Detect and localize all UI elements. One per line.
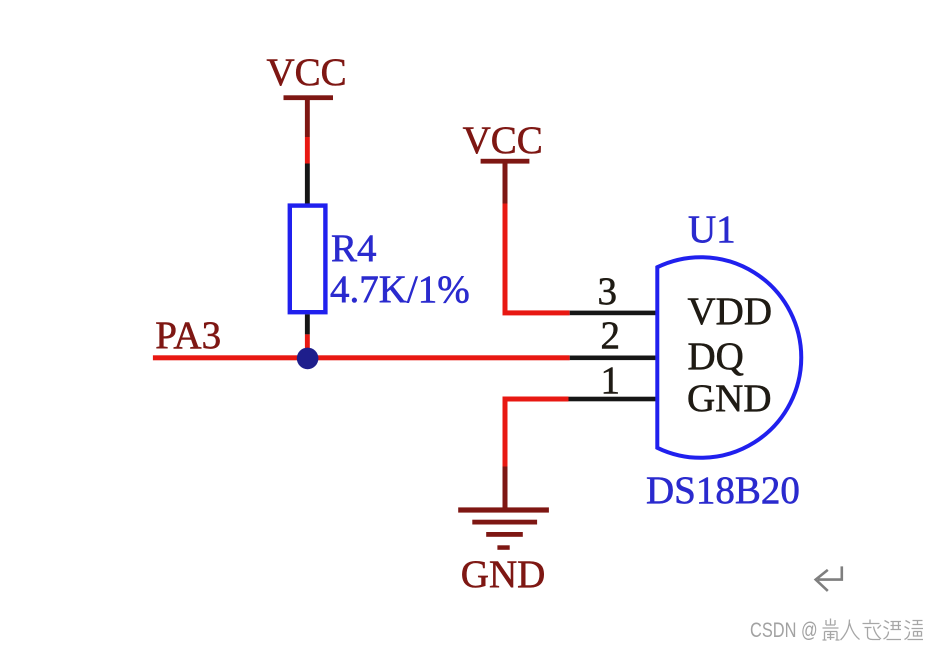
- wire pin2 black horizontal: [570, 356, 658, 361]
- watermark chinese glyphs: [821, 618, 926, 644]
- pin number 2: [601, 316, 621, 355]
- pin number 3: [598, 272, 618, 311]
- power symbol VCC (right) bar: [481, 159, 530, 164]
- designator U1: [688, 210, 736, 249]
- wire GND stem maroon: [503, 467, 508, 509]
- return arrow icon: [816, 566, 842, 591]
- wire pin1 red horizontal: [503, 397, 569, 402]
- ground bar 1: [458, 507, 549, 512]
- net label VCC (left): [267, 53, 347, 92]
- wire pin1 black horizontal: [569, 397, 658, 402]
- power symbol VCC (left) stem: [305, 97, 310, 137]
- pin number 1: [601, 361, 621, 400]
- power symbol VCC (left) bar: [284, 95, 334, 100]
- power symbol VCC (right) stem: [503, 161, 508, 204]
- ground bar 2: [472, 520, 537, 525]
- net label VCC (right): [463, 121, 543, 160]
- wire PA3 horizontal net: [153, 355, 570, 360]
- wire R4 to node red segment: [305, 334, 310, 349]
- pin name GND: [687, 379, 772, 418]
- wire pin3 red horizontal: [503, 310, 570, 315]
- wire pin3 black horizontal: [570, 311, 658, 316]
- pin name VDD: [688, 292, 773, 331]
- junction dot node PA3: [297, 348, 319, 370]
- wire pin1 to GND vertical red: [503, 397, 508, 467]
- watermark CSDN: [750, 620, 818, 641]
- wire R4 to node black segment: [305, 314, 310, 334]
- wire VCC to R4 red segment: [305, 137, 310, 164]
- designator R4: [331, 229, 377, 268]
- value DS18B20: [646, 471, 800, 510]
- net label PA3: [155, 316, 221, 355]
- op-amp U1 DS18B20 body: [657, 257, 801, 458]
- value 4.7K/1%: [330, 270, 470, 309]
- wire VCC2 vertical red: [503, 204, 508, 313]
- resistor R4 body: [290, 206, 326, 313]
- net label GND: [461, 555, 546, 594]
- ground bar 3: [486, 532, 523, 537]
- pin name DQ: [688, 337, 744, 376]
- ground bar 4: [497, 545, 509, 550]
- wire VCC to R4 black segment: [305, 164, 310, 206]
